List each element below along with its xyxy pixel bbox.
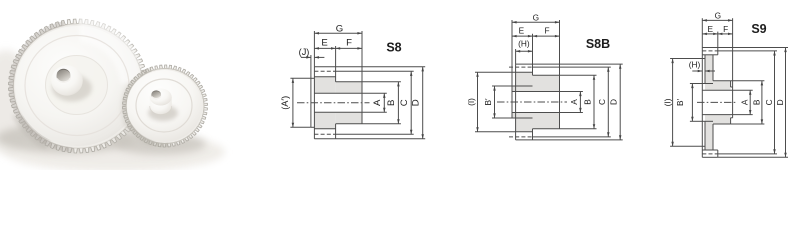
small gear hub [148,89,178,122]
S9 left ring flange [702,55,705,150]
svg-text:A: A [372,99,383,106]
photo backdrop wash [5,132,225,172]
S9 dimension B-prime left [675,84,702,122]
svg-text:D: D [411,99,422,106]
svg-text:(I): (I) [663,98,673,106]
S9 left boss [702,83,713,85]
svg-text:A: A [740,99,750,105]
S8 dimension J [299,47,325,78]
svg-text:F: F [544,25,549,35]
shadow under small gear [114,134,206,155]
S8B dimension C [533,67,611,137]
S8 dimension B [362,82,401,124]
svg-text:D: D [775,99,785,105]
svg-text:A: A [569,99,579,105]
svg-text:(I): (I) [466,98,476,106]
small gear [123,65,208,147]
S8 dimension E F [314,38,362,67]
S9 pitch lines [702,50,718,52]
S9 bore lines [702,89,732,91]
svg-text:S9: S9 [751,22,766,36]
large gear [9,14,148,153]
S9 dimension A [733,90,753,114]
svg-text:E: E [708,24,714,34]
svg-text:(H): (H) [689,59,701,69]
svg-text:B: B [751,99,761,105]
svg-text:G: G [715,11,721,21]
S8 bore lines [314,92,362,94]
S9 center line [697,101,737,103]
svg-text:G: G [336,23,343,34]
S8 center line [297,102,370,104]
S8B hub outline [533,75,560,129]
S8 dimension A-prime [280,78,311,127]
S8B dimension D [533,64,623,140]
S8B section gray fill [512,72,560,132]
svg-text:F: F [346,38,352,49]
svg-text:D: D [609,99,619,105]
svg-text:B′: B′ [483,98,493,106]
S8 dimension A [362,93,387,112]
S9 dimension B [731,81,765,124]
S8B pitch lines [509,66,533,68]
S8 face ring boss [311,78,315,127]
svg-text:C: C [764,99,774,105]
S8B dimension B [560,75,597,129]
S8 section gray fill [314,77,362,129]
S8B bore lines [512,91,560,93]
svg-text:C: C [597,99,607,105]
S9 dimension E F [702,24,732,48]
S8B dimension B-prime [483,86,512,118]
svg-text:S8: S8 [386,41,401,55]
svg-text:(J): (J) [299,47,310,57]
svg-text:B′: B′ [675,98,685,106]
svg-text:C: C [399,99,410,106]
shadow under large gear [0,123,136,153]
S8 gear disc outline [314,67,335,139]
S8 dimension D [336,67,426,139]
S9 gear rim outline [702,48,718,158]
svg-text:G: G [533,12,539,22]
svg-text:E: E [519,25,525,35]
S8 hub outline [336,82,362,124]
S9 right ring boss [731,87,733,118]
S8B dimension A [560,92,583,113]
S8B dimension G [512,12,560,86]
S9 web and hub outline [713,55,731,150]
S9 dimension C [718,51,777,154]
S8B left boss [512,86,533,118]
S8B dimension E F [512,25,560,64]
S8 dimension G [314,23,362,82]
S8 dimension C [336,71,414,134]
svg-text:B: B [583,99,593,105]
S8 pitch lines [314,70,335,72]
S8B gear disc outline [516,64,533,140]
S9 section gray fill [705,55,731,150]
S9 dimension G [702,11,732,87]
S8B dimension H [516,39,533,65]
svg-text:S8B: S8B [586,37,610,51]
large gear hub [51,65,92,101]
S9 dimension H [689,59,715,72]
svg-text:E: E [321,38,327,49]
svg-text:F: F [723,24,728,34]
svg-text:(A′): (A′) [280,96,290,110]
S9 dimension D [718,48,788,158]
S8B center line [497,101,567,103]
S8B dimension I [466,72,516,132]
svg-text:(H): (H) [518,39,530,49]
S9 dimension I [663,59,703,147]
svg-text:B: B [386,100,397,106]
